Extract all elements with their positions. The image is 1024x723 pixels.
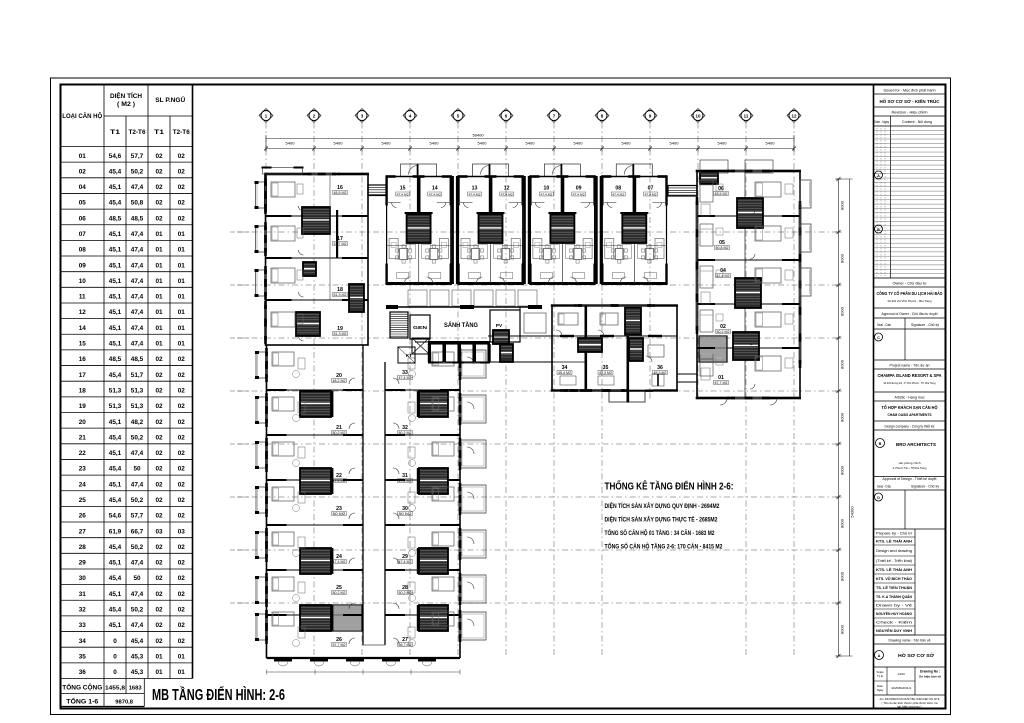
svg-text:Signature - Chữ ký: Signature - Chữ ký bbox=[911, 323, 939, 327]
svg-text:Approval of Design - Thiết kế: Approval of Design - Thiết kế duyệt bbox=[883, 477, 937, 481]
svg-text:02: 02 bbox=[155, 387, 163, 394]
svg-text:02: 02 bbox=[155, 450, 163, 457]
svg-text:48,5: 48,5 bbox=[109, 215, 122, 222]
svg-text:29: 29 bbox=[79, 560, 87, 567]
svg-text:A: A bbox=[878, 654, 881, 658]
svg-text:23: 23 bbox=[79, 466, 87, 473]
svg-text:Issued for - Mục đích phát hàn: Issued for - Mục đích phát hành bbox=[884, 89, 936, 93]
svg-text:HỒ SƠ CƠ SỞ - KIẾN TRÚC: HỒ SƠ CƠ SỞ - KIẾN TRÚC bbox=[880, 98, 941, 104]
svg-text:02: 02 bbox=[178, 607, 186, 614]
svg-text:(Thiết kế - Triển khai): (Thiết kế - Triển khai) bbox=[876, 559, 912, 563]
svg-text:11: 11 bbox=[79, 294, 86, 301]
svg-text:02: 02 bbox=[178, 450, 186, 457]
svg-text:08: 08 bbox=[79, 247, 87, 254]
svg-text:45,1: 45,1 bbox=[109, 341, 122, 348]
svg-text:CHAM OASIS APARTMENTS: CHAM OASIS APARTMENTS bbox=[888, 413, 933, 417]
svg-text:10: 10 bbox=[79, 278, 87, 285]
svg-text:45,4: 45,4 bbox=[109, 200, 122, 207]
svg-text:8000: 8000 bbox=[840, 359, 845, 369]
svg-text:47,4 M2: 47,4 M2 bbox=[399, 479, 412, 483]
svg-text:12: 12 bbox=[504, 186, 510, 192]
svg-text:02: 02 bbox=[155, 497, 163, 504]
svg-text:tại hiện trường ): tại hiện trường ) bbox=[898, 704, 922, 708]
svg-text:02: 02 bbox=[155, 622, 163, 629]
svg-text:HỒ SƠ CƠ SỞ: HỒ SƠ CƠ SỞ bbox=[898, 652, 934, 658]
svg-text:19: 19 bbox=[79, 403, 87, 410]
svg-text:47,4: 47,4 bbox=[131, 622, 144, 629]
svg-text:Owner - Chủ đầu tư: Owner - Chủ đầu tư bbox=[893, 282, 928, 286]
svg-text:48,5: 48,5 bbox=[131, 356, 144, 363]
svg-text:09: 09 bbox=[576, 186, 582, 192]
svg-text:47,4: 47,4 bbox=[131, 278, 144, 285]
svg-text:45,3 M2: 45,3 M2 bbox=[599, 371, 612, 375]
svg-text:0: 0 bbox=[113, 653, 117, 660]
svg-text:45,1: 45,1 bbox=[109, 231, 122, 238]
svg-text:1455,8: 1455,8 bbox=[105, 686, 126, 692]
svg-text:17: 17 bbox=[79, 372, 87, 379]
svg-text:45,1: 45,1 bbox=[109, 450, 122, 457]
svg-text:45,1: 45,1 bbox=[109, 278, 122, 285]
svg-text:02: 02 bbox=[178, 434, 186, 441]
svg-text:45,4: 45,4 bbox=[109, 607, 122, 614]
svg-text:8000: 8000 bbox=[840, 253, 845, 263]
svg-text:9870,8: 9870,8 bbox=[115, 700, 134, 706]
svg-text:8000: 8000 bbox=[840, 412, 845, 422]
svg-text:08: 08 bbox=[615, 186, 621, 192]
svg-text:34: 34 bbox=[79, 638, 87, 645]
svg-text:47,4 M2: 47,4 M2 bbox=[645, 192, 657, 196]
svg-text:36: 36 bbox=[79, 669, 87, 676]
svg-text:35: 35 bbox=[79, 653, 87, 660]
svg-text:B: B bbox=[879, 442, 882, 446]
svg-text:02: 02 bbox=[155, 575, 163, 582]
svg-text:TỔ HỢP KHÁCH SẠN CĂN HỘ: TỔ HỢP KHÁCH SẠN CĂN HỘ bbox=[882, 405, 939, 410]
svg-text:57,7 M2: 57,7 M2 bbox=[333, 643, 346, 647]
svg-text:TỔNG SỐ CĂN HỘ 01 TẦNG : 34 CĂ: TỔNG SỐ CĂN HỘ 01 TẦNG : 34 CĂN - 1683 M… bbox=[605, 529, 716, 537]
svg-text:57,7 M2: 57,7 M2 bbox=[715, 381, 728, 385]
svg-text:50,8 M2: 50,8 M2 bbox=[716, 246, 729, 250]
svg-text:KTS. VŨ BÍCH THẢO: KTS. VŨ BÍCH THẢO bbox=[876, 576, 912, 581]
svg-text:51,3: 51,3 bbox=[131, 387, 144, 394]
svg-text:( M2 ): ( M2 ) bbox=[117, 102, 135, 108]
svg-text:TS. K.A THÀNH QUÂN: TS. K.A THÀNH QUÂN bbox=[876, 594, 912, 599]
svg-text:01: 01 bbox=[178, 262, 186, 269]
svg-text:57,7: 57,7 bbox=[131, 513, 144, 520]
svg-text:45,4 M2: 45,4 M2 bbox=[558, 371, 571, 375]
svg-text:09: 09 bbox=[79, 262, 87, 269]
svg-text:47,4 M2: 47,4 M2 bbox=[333, 479, 346, 483]
svg-text:15: 15 bbox=[79, 341, 87, 348]
svg-text:Content - Nội dung: Content - Nội dung bbox=[902, 120, 932, 124]
svg-text:Seal - Dấu: Seal - Dấu bbox=[877, 485, 891, 489]
svg-text:8000: 8000 bbox=[840, 465, 845, 475]
svg-text:B: B bbox=[877, 228, 880, 232]
svg-text:48,5: 48,5 bbox=[109, 356, 122, 363]
svg-text:5400: 5400 bbox=[526, 141, 536, 146]
svg-text:5400: 5400 bbox=[718, 141, 728, 146]
svg-text:NGUYỄN DUY VINH: NGUYỄN DUY VINH bbox=[876, 628, 912, 633]
svg-text:50 M2: 50 M2 bbox=[399, 512, 412, 516]
svg-text:02: 02 bbox=[178, 372, 186, 379]
svg-text:50,2 M2: 50,2 M2 bbox=[717, 330, 730, 334]
svg-text:Seal - Dấu: Seal - Dấu bbox=[877, 323, 891, 327]
svg-text:02: 02 bbox=[155, 481, 163, 488]
svg-text:47,4 M2: 47,4 M2 bbox=[429, 192, 441, 196]
svg-text:02: 02 bbox=[155, 513, 163, 520]
svg-text:31: 31 bbox=[79, 591, 87, 598]
svg-text:24: 24 bbox=[79, 481, 87, 488]
svg-text:Drawing No :: Drawing No : bbox=[920, 670, 940, 674]
svg-text:02: 02 bbox=[178, 622, 186, 629]
svg-text:48,2: 48,2 bbox=[131, 419, 144, 426]
svg-text:45,3: 45,3 bbox=[131, 669, 144, 676]
svg-text:02: 02 bbox=[178, 153, 186, 160]
svg-text:Số 304 2/4 Vĩnh Phước - Nha Tr: Số 304 2/4 Vĩnh Phước - Nha Trang bbox=[888, 299, 932, 303]
svg-text:Signature - Chữ ký: Signature - Chữ ký bbox=[911, 485, 939, 489]
svg-text:TỔNG CỘNG: TỔNG CỘNG bbox=[62, 684, 102, 692]
svg-text:47,4 M2: 47,4 M2 bbox=[333, 560, 346, 564]
svg-text:66,7: 66,7 bbox=[131, 528, 144, 535]
svg-text:02: 02 bbox=[155, 215, 163, 222]
svg-text:47,4: 47,4 bbox=[131, 341, 144, 348]
svg-text:45,4: 45,4 bbox=[109, 434, 122, 441]
svg-text:02: 02 bbox=[155, 638, 163, 645]
svg-text:16: 16 bbox=[79, 356, 87, 363]
svg-text:C: C bbox=[877, 336, 880, 340]
svg-text:02: 02 bbox=[178, 544, 186, 551]
svg-text:54,6: 54,6 bbox=[109, 513, 122, 520]
svg-text:50,2: 50,2 bbox=[131, 434, 144, 441]
svg-text:45,4: 45,4 bbox=[109, 168, 122, 175]
svg-text:5400: 5400 bbox=[286, 141, 296, 146]
svg-text:04: 04 bbox=[79, 184, 87, 191]
svg-text:01: 01 bbox=[155, 341, 163, 348]
svg-text:5400: 5400 bbox=[622, 141, 632, 146]
svg-text:5400: 5400 bbox=[430, 141, 440, 146]
svg-text:văn phòng chính: văn phòng chính bbox=[899, 461, 921, 465]
svg-text:45,4: 45,4 bbox=[109, 466, 122, 473]
svg-text:02: 02 bbox=[178, 419, 186, 426]
svg-text:45,1: 45,1 bbox=[109, 294, 122, 301]
svg-text:NGUYỄN HUY HOÀNG: NGUYỄN HUY HOÀNG bbox=[876, 611, 912, 616]
svg-text:30: 30 bbox=[79, 575, 87, 582]
svg-text:22: 22 bbox=[79, 450, 87, 457]
svg-text:Drawn by - Vẽ: Drawn by - Vẽ bbox=[876, 604, 912, 608]
svg-text:45,1: 45,1 bbox=[109, 622, 122, 629]
svg-text:01: 01 bbox=[155, 262, 163, 269]
svg-text:06: 06 bbox=[79, 215, 87, 222]
svg-text:45,1: 45,1 bbox=[109, 591, 122, 598]
svg-text:07: 07 bbox=[79, 231, 87, 238]
svg-text:LOẠI CĂN HỘ: LOẠI CĂN HỘ bbox=[62, 111, 102, 120]
svg-text:02: 02 bbox=[178, 591, 186, 598]
svg-text:50: 50 bbox=[133, 466, 141, 473]
svg-text:47,4: 47,4 bbox=[131, 294, 144, 301]
svg-text:13: 13 bbox=[472, 186, 478, 192]
svg-text:CÔNG TY CỔ PHẦN DU LỊCH HẢI BÀ: CÔNG TY CỔ PHẦN DU LỊCH HẢI BÀO bbox=[877, 291, 944, 296]
svg-text:50,2: 50,2 bbox=[131, 544, 144, 551]
svg-text:50 M2: 50 M2 bbox=[333, 512, 346, 516]
svg-text:01: 01 bbox=[178, 231, 186, 238]
svg-text:11: 11 bbox=[744, 114, 749, 119]
svg-text:01: 01 bbox=[79, 153, 87, 160]
svg-text:02: 02 bbox=[155, 607, 163, 614]
svg-text:02: 02 bbox=[178, 356, 186, 363]
svg-text:Số hiệu bản vẽ: Số hiệu bản vẽ bbox=[919, 675, 941, 679]
svg-text:GEN: GEN bbox=[413, 325, 428, 331]
svg-text:01: 01 bbox=[178, 653, 186, 660]
svg-text:01: 01 bbox=[178, 247, 186, 254]
svg-text:( Tất cả các kích thước phải đ: ( Tất cả các kích thước phải được kiểm t… bbox=[882, 701, 939, 705]
svg-text:T1: T1 bbox=[110, 130, 121, 136]
svg-text:KTS. LÊ THÁI ANH: KTS. LÊ THÁI ANH bbox=[876, 539, 912, 544]
svg-text:10: 10 bbox=[544, 186, 550, 192]
svg-text:01: 01 bbox=[155, 247, 163, 254]
svg-text:T2-T6: T2-T6 bbox=[129, 130, 147, 136]
svg-text:47,4: 47,4 bbox=[131, 560, 144, 567]
svg-text:SẢNH TẦNG: SẢNH TẦNG bbox=[444, 322, 478, 329]
svg-text:8000: 8000 bbox=[840, 200, 845, 210]
svg-text:59400: 59400 bbox=[472, 133, 484, 138]
svg-text:5400: 5400 bbox=[334, 141, 344, 146]
svg-text:47,4 M2: 47,4 M2 bbox=[612, 192, 624, 196]
svg-text:05: 05 bbox=[79, 200, 87, 207]
svg-text:Design and drawing: Design and drawing bbox=[876, 549, 912, 553]
svg-text:12: 12 bbox=[79, 309, 87, 316]
svg-text:01: 01 bbox=[155, 294, 163, 301]
svg-text:0: 0 bbox=[113, 669, 117, 676]
svg-text:47,4: 47,4 bbox=[131, 325, 144, 332]
svg-text:45,4: 45,4 bbox=[109, 544, 122, 551]
svg-text:Revision - Hiệu chỉnh: Revision - Hiệu chỉnh bbox=[892, 111, 928, 115]
svg-text:Design company - Công ty thiết: Design company - Công ty thiết kế bbox=[885, 425, 935, 429]
svg-text:8000: 8000 bbox=[840, 571, 845, 581]
svg-text:02: 02 bbox=[155, 466, 163, 473]
svg-text:8000: 8000 bbox=[840, 306, 845, 316]
svg-text:51,3: 51,3 bbox=[109, 387, 122, 394]
svg-text:02: 02 bbox=[155, 356, 163, 363]
svg-text:BRO ARCHITECTS: BRO ARCHITECTS bbox=[896, 442, 936, 447]
svg-text:50: 50 bbox=[133, 575, 141, 582]
svg-text:47,4 M2: 47,4 M2 bbox=[573, 192, 585, 196]
svg-text:02: 02 bbox=[155, 591, 163, 598]
svg-text:MB TẦNG ĐIỂN HÌNH: 2-6: MB TẦNG ĐIỂN HÌNH: 2-6 bbox=[152, 686, 285, 704]
svg-text:48,5 M2: 48,5 M2 bbox=[334, 191, 347, 195]
svg-text:8000: 8000 bbox=[840, 624, 845, 634]
svg-text:02: 02 bbox=[178, 513, 186, 520]
svg-text:01: 01 bbox=[155, 325, 163, 332]
svg-text:02: 02 bbox=[178, 215, 186, 222]
svg-text:20: 20 bbox=[79, 419, 87, 426]
svg-text:50,2: 50,2 bbox=[131, 607, 144, 614]
svg-text:02: 02 bbox=[155, 168, 163, 175]
svg-text:CHAMPA ISLAND RESORT & SPA: CHAMPA ISLAND RESORT & SPA bbox=[878, 373, 943, 378]
svg-text:T2-T6: T2-T6 bbox=[173, 130, 191, 136]
svg-text:33: 33 bbox=[79, 622, 87, 629]
svg-text:47,4: 47,4 bbox=[131, 184, 144, 191]
svg-text:18: 18 bbox=[79, 387, 87, 394]
svg-text:45,1: 45,1 bbox=[109, 419, 122, 426]
svg-text:02: 02 bbox=[178, 200, 186, 207]
svg-text:25: 25 bbox=[79, 497, 87, 504]
svg-text:Drawing name - Tên bản vẽ: Drawing name - Tên bản vẽ bbox=[889, 639, 931, 643]
svg-text:45,1: 45,1 bbox=[109, 262, 122, 269]
svg-text:47,4 M2: 47,4 M2 bbox=[501, 192, 513, 196]
svg-text:01: 01 bbox=[178, 294, 186, 301]
svg-text:02: 02 bbox=[155, 153, 163, 160]
svg-text:51,3 M2: 51,3 M2 bbox=[334, 293, 347, 297]
svg-text:01: 01 bbox=[178, 309, 186, 316]
svg-text:4, Phước Tân - TP.Nha Trang: 4, Phước Tân - TP.Nha Trang bbox=[893, 466, 927, 470]
svg-text:KT: KT bbox=[406, 353, 412, 359]
svg-text:45,1: 45,1 bbox=[109, 560, 122, 567]
svg-text:45,1: 45,1 bbox=[109, 325, 122, 332]
svg-text:02: 02 bbox=[155, 200, 163, 207]
svg-text:50,2 M2: 50,2 M2 bbox=[399, 591, 412, 595]
svg-text:45,1: 45,1 bbox=[109, 481, 122, 488]
svg-text:45,4: 45,4 bbox=[109, 497, 122, 504]
svg-text:01: 01 bbox=[155, 669, 163, 676]
svg-text:47,4 M2: 47,4 M2 bbox=[397, 192, 409, 196]
svg-text:PV: PV bbox=[496, 323, 503, 329]
svg-text:T1: T1 bbox=[154, 130, 165, 136]
svg-text:12: 12 bbox=[791, 114, 797, 119]
svg-text:0: 0 bbox=[113, 638, 117, 645]
svg-text:02: 02 bbox=[178, 168, 186, 175]
svg-text:50,2 M2: 50,2 M2 bbox=[333, 431, 346, 435]
svg-text:02: 02 bbox=[178, 466, 186, 473]
svg-text:02: 02 bbox=[155, 419, 163, 426]
svg-text:47,4: 47,4 bbox=[131, 591, 144, 598]
svg-text:45,4: 45,4 bbox=[109, 575, 122, 582]
svg-text:32: 32 bbox=[79, 607, 87, 614]
svg-text:48,2 M2: 48,2 M2 bbox=[333, 379, 346, 383]
svg-text:14: 14 bbox=[432, 186, 438, 192]
svg-text:47,4: 47,4 bbox=[131, 231, 144, 238]
svg-text:01: 01 bbox=[155, 278, 163, 285]
svg-text:48,5: 48,5 bbox=[131, 215, 144, 222]
svg-text:45,4: 45,4 bbox=[131, 638, 144, 645]
svg-text:47,4: 47,4 bbox=[131, 309, 144, 316]
svg-text:47,4: 47,4 bbox=[131, 481, 144, 488]
svg-text:10/06/2014: 10/06/2014 bbox=[891, 686, 911, 690]
svg-text:45,1: 45,1 bbox=[109, 184, 122, 191]
svg-text:A: A bbox=[877, 174, 880, 178]
svg-text:15: 15 bbox=[400, 186, 406, 192]
svg-text:47,4 M2: 47,4 M2 bbox=[399, 560, 412, 564]
svg-text:Check - Kiểm: Check - Kiểm bbox=[876, 621, 913, 625]
svg-text:01: 01 bbox=[155, 309, 163, 316]
svg-text:03: 03 bbox=[155, 528, 163, 535]
svg-text:02: 02 bbox=[178, 387, 186, 394]
svg-text:DIỆN TÍCH: DIỆN TÍCH bbox=[110, 91, 142, 100]
svg-text:02: 02 bbox=[155, 403, 163, 410]
svg-text:02: 02 bbox=[178, 575, 186, 582]
svg-text:02: 02 bbox=[178, 403, 186, 410]
svg-text:TỔNG SỐ CĂN HỘ TẦNG 2-6: 170 C: TỔNG SỐ CĂN HỘ TẦNG 2-6: 170 CĂN - 8415 … bbox=[605, 543, 724, 551]
svg-text:Artistic - Hạng mục: Artistic - Hạng mục bbox=[895, 396, 925, 400]
svg-text:DIỆN TÍCH SÀN XÂY DỰNG THỰC TẾ: DIỆN TÍCH SÀN XÂY DỰNG THỰC TẾ - 2685M2 bbox=[605, 516, 719, 524]
svg-text:21: 21 bbox=[79, 434, 87, 441]
svg-text:45,1: 45,1 bbox=[109, 247, 122, 254]
svg-text:51,7: 51,7 bbox=[131, 372, 144, 379]
svg-text:Ngày: Ngày bbox=[877, 688, 884, 692]
svg-text:02: 02 bbox=[178, 638, 186, 645]
svg-text:45,4: 45,4 bbox=[109, 372, 122, 379]
svg-text:01: 01 bbox=[155, 653, 163, 660]
svg-text:5400: 5400 bbox=[766, 141, 776, 146]
svg-text:Project name - Tên dự án: Project name - Tên dự án bbox=[890, 364, 930, 368]
svg-text:47,4: 47,4 bbox=[131, 247, 144, 254]
svg-text:01: 01 bbox=[178, 325, 186, 332]
svg-text:10: 10 bbox=[695, 114, 701, 119]
svg-text:51,7 M2: 51,7 M2 bbox=[334, 242, 347, 246]
svg-text:01: 01 bbox=[178, 341, 186, 348]
svg-text:Date - Ngày: Date - Ngày bbox=[874, 120, 889, 124]
svg-text:Tỷ lệ: Tỷ lệ bbox=[877, 674, 884, 678]
svg-text:THỐNG KÊ TẦNG ĐIỂN HÌNH 2-6:: THỐNG KÊ TẦNG ĐIỂN HÌNH 2-6: bbox=[605, 479, 734, 493]
svg-text:D: D bbox=[877, 496, 880, 500]
svg-text:14: 14 bbox=[79, 325, 87, 332]
svg-text:DIỆN TÍCH SÀN XÂY DỰNG QUY ĐỊN: DIỆN TÍCH SÀN XÂY DỰNG QUY ĐỊNH - 2694M2 bbox=[605, 502, 721, 510]
svg-text:02: 02 bbox=[155, 560, 163, 567]
svg-text:26: 26 bbox=[79, 513, 87, 520]
svg-text:61,9: 61,9 bbox=[109, 528, 122, 535]
svg-text:50,2: 50,2 bbox=[131, 168, 144, 175]
svg-text:47,4: 47,4 bbox=[131, 262, 144, 269]
svg-text:47,4 M2: 47,4 M2 bbox=[399, 376, 412, 380]
svg-text:Số 304 đường 2/4 - P. Vĩnh Phư: Số 304 đường 2/4 - P. Vĩnh Phước - TP. N… bbox=[884, 381, 936, 385]
svg-text:28: 28 bbox=[79, 544, 87, 551]
svg-text:Prepare by - Chủ trì: Prepare by - Chủ trì bbox=[876, 532, 912, 536]
svg-text:50,8: 50,8 bbox=[131, 200, 144, 207]
svg-text:01: 01 bbox=[178, 278, 186, 285]
svg-text:66,7 M2: 66,7 M2 bbox=[399, 643, 412, 647]
svg-text:5400: 5400 bbox=[478, 141, 488, 146]
svg-text:02: 02 bbox=[79, 168, 87, 175]
svg-text:TỔNG 1-6: TỔNG 1-6 bbox=[66, 699, 99, 706]
svg-text:27: 27 bbox=[79, 528, 87, 535]
svg-text:54300: 54300 bbox=[850, 506, 855, 518]
svg-text:5400: 5400 bbox=[670, 141, 680, 146]
svg-text:02: 02 bbox=[178, 560, 186, 567]
svg-text:50,2: 50,2 bbox=[131, 497, 144, 504]
svg-text:01: 01 bbox=[155, 231, 163, 238]
svg-text:1683: 1683 bbox=[129, 686, 143, 692]
svg-text:51,3: 51,3 bbox=[131, 403, 144, 410]
svg-text:02: 02 bbox=[178, 497, 186, 504]
svg-text:50,2 M2: 50,2 M2 bbox=[333, 591, 346, 595]
svg-text:5400: 5400 bbox=[574, 141, 584, 146]
svg-text:02: 02 bbox=[155, 184, 163, 191]
svg-text:48,5 M2: 48,5 M2 bbox=[715, 192, 728, 196]
svg-text:02: 02 bbox=[178, 481, 186, 488]
svg-text:8000: 8000 bbox=[840, 518, 845, 528]
svg-text:KTS. LÊ THÁI ANH: KTS. LÊ THÁI ANH bbox=[876, 567, 912, 572]
svg-text:50,2 M2: 50,2 M2 bbox=[399, 431, 412, 435]
svg-text:45,3: 45,3 bbox=[131, 653, 144, 660]
svg-text:51,3: 51,3 bbox=[109, 403, 122, 410]
svg-text:02: 02 bbox=[155, 434, 163, 441]
svg-text:02: 02 bbox=[178, 184, 186, 191]
svg-text:07: 07 bbox=[648, 186, 654, 192]
svg-text:01: 01 bbox=[178, 669, 186, 676]
svg-text:57,7: 57,7 bbox=[131, 153, 144, 160]
svg-text:ALL INFORMATION MUST BE CHECKE: ALL INFORMATION MUST BE CHECKED ON SITE bbox=[880, 697, 940, 701]
svg-text:SL P.NGỦ: SL P.NGỦ bbox=[155, 95, 185, 104]
svg-text:02: 02 bbox=[155, 372, 163, 379]
svg-text:51,3 M2: 51,3 M2 bbox=[334, 332, 347, 336]
